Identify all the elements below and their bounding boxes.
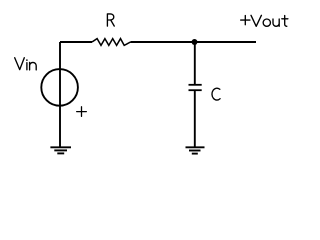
resistor R	[92, 39, 131, 46]
wire capacitor top stub	[194, 42, 196, 85]
capacitor C	[189, 85, 202, 90]
label C	[212, 88, 220, 100]
wire capacitor bottom stub	[194, 90, 196, 147]
ground (right)	[186, 147, 205, 153]
node junction	[192, 39, 198, 45]
polarity plus sign	[77, 107, 87, 117]
label R	[107, 14, 114, 26]
label Vin	[15, 58, 37, 70]
wire top-left segment	[60, 41, 92, 43]
wire top-right segment	[131, 41, 257, 43]
ground (left)	[50, 147, 71, 153]
wire left vertical	[59, 42, 61, 147]
label +Vout	[241, 15, 288, 26]
voltage source Vin	[41, 69, 78, 106]
